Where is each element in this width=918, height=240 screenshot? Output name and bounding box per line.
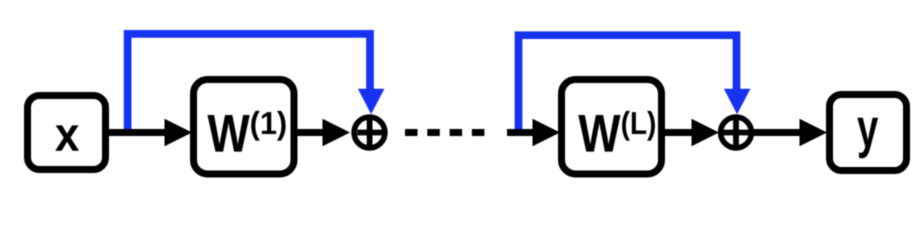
adder 2 xyxy=(721,117,752,148)
wire x to W1 with arrowhead xyxy=(107,119,192,147)
box y xyxy=(830,95,907,171)
box WL xyxy=(562,80,662,175)
wire W1 to adder1 with arrowhead xyxy=(296,119,350,147)
wire adder2 to y with arrowhead xyxy=(753,119,827,147)
dashed wire xyxy=(405,129,485,136)
skip connection 2 (blue) xyxy=(519,35,751,134)
skip connection 1 (blue) xyxy=(128,34,385,134)
box W1 xyxy=(194,80,295,175)
wire WL to adder2 with arrowhead xyxy=(663,119,719,147)
adder 1 xyxy=(354,117,385,148)
wire to WL with arrowhead xyxy=(507,119,560,147)
box x xyxy=(28,96,106,170)
